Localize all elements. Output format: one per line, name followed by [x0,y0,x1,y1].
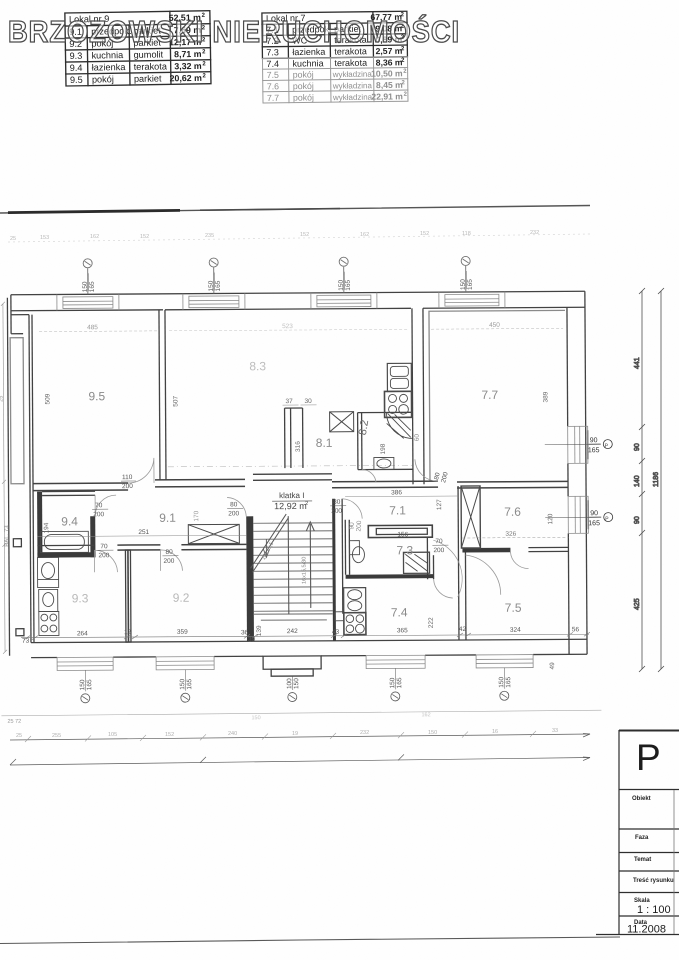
svg-text:90: 90 [590,510,598,517]
wall 7.4 | 7.5 [457,552,460,640]
svg-text:8.2: 8.2 [357,419,371,436]
svg-text:9.3: 9.3 [72,591,89,605]
bottom wall window 4 [366,655,425,668]
kitchen unit 8 sink [387,363,411,391]
svg-text:264: 264 [77,630,88,637]
svg-text:16: 16 [492,729,498,735]
svg-text:wykładzina: wykładzina [332,81,373,90]
wall left of 7.6 shaft [457,486,459,552]
svg-text:pokój: pokój [92,74,114,84]
bottom wall window 1 [57,657,113,670]
top wall window 4 [439,292,505,308]
svg-text:127: 127 [436,499,443,510]
left exterior wall [7,298,9,656]
svg-text:25: 25 [10,236,16,242]
svg-text:terakota: terakota [334,58,367,68]
svg-text:7.5: 7.5 [267,70,279,80]
svg-text:10,50 m: 10,50 m [371,68,403,78]
top wall window 1 [57,294,119,310]
svg-text:7.6: 7.6 [504,505,521,519]
faint bottom sub-dim line [1,710,601,725]
room 9.4 walls [37,492,42,558]
wall klatka | 7.3 [332,499,336,641]
corridor bottom wall segments [37,544,94,546]
dash ceiling line 8.3 area [168,465,412,466]
bottom window labels [79,668,512,703]
sink 7.4 [344,588,366,613]
svg-text:150: 150 [179,678,186,689]
corner shower 8.2 [387,412,413,438]
svg-text:150: 150 [389,677,396,688]
left pilaster strip [10,338,24,484]
svg-text:162: 162 [421,712,430,718]
svg-text:150: 150 [428,730,437,736]
svg-text:152: 152 [140,234,149,240]
corridor top wall segments [33,477,568,490]
door arcs [94,456,529,601]
FLOOR PLAN [7,256,589,678]
svg-text:240: 240 [228,731,237,737]
svg-text:49: 49 [549,662,556,670]
top wall window 2 [183,293,245,309]
shower 7.3 [403,552,429,573]
top window labels 150/165 [82,271,474,292]
svg-text:8.3: 8.3 [249,359,266,373]
stairs klatka [250,514,333,614]
svg-text:386: 386 [391,489,402,496]
svg-text:152: 152 [165,732,174,738]
svg-text:9.4: 9.4 [61,514,78,528]
svg-text:100: 100 [286,678,293,689]
svg-text:523: 523 [282,323,293,330]
svg-text:200: 200 [163,558,174,565]
svg-text:152: 152 [300,232,309,238]
svg-text:P: P [636,737,661,778]
svg-text:120: 120 [547,513,554,524]
svg-text:7.5: 7.5 [505,601,522,615]
svg-text:200: 200 [331,508,342,515]
long dim line 2 [10,758,590,766]
horizontal dim line across rooms y635 [21,632,590,639]
door 9.5 to corridor [128,458,154,483]
svg-text:9.2: 9.2 [173,591,190,605]
svg-text:22,91 m: 22,91 m [371,91,403,101]
svg-text:389: 389 [542,391,549,402]
svg-text:8,45 m: 8,45 m [376,80,403,90]
svg-text:232: 232 [360,730,369,736]
dim line segments 441/90/140/90/425 [641,291,643,669]
long dim line 1 [10,734,590,740]
door 7.5 [465,555,500,595]
dim 326 in 7.6 [462,530,568,538]
svg-text:30: 30 [304,398,312,405]
svg-text:235: 235 [205,233,214,239]
stove 7.4 [344,613,366,635]
svg-text:9.3: 9.3 [69,51,82,61]
svg-text:316: 316 [295,441,302,452]
svg-text:60: 60 [414,434,421,442]
svg-text:9.4: 9.4 [70,63,83,73]
room 7.7 inner outline [429,310,566,481]
svg-text:12,92 m: 12,92 m [274,501,307,511]
room labels [60,358,522,622]
svg-text:165: 165 [588,520,600,527]
stove 9.3 [39,611,59,635]
svg-text:150: 150 [79,679,86,690]
svg-text:56: 56 [572,626,580,633]
svg-text:140: 140 [634,475,641,487]
svg-text:200: 200 [122,483,133,490]
svg-text:42: 42 [459,626,467,633]
dim 485 in 9.5 [39,321,563,331]
svg-text:7.7: 7.7 [481,388,498,402]
svg-text:25: 25 [0,396,5,402]
svg-text:Obiekt: Obiekt [632,796,651,802]
shaft X corridor wardrobe [188,524,239,543]
svg-text:73: 73 [22,638,30,645]
svg-text:162: 162 [90,234,99,240]
8-area kitchenette stub wall [284,408,286,468]
svg-text:200: 200 [98,552,109,559]
svg-text:pokój: pokój [293,92,314,102]
svg-text:80: 80 [333,499,341,506]
svg-text:Faza: Faza [635,835,649,841]
table lokal nr 9 [65,11,211,86]
svg-text:80: 80 [165,549,173,556]
washbasin 9.3 [37,557,58,587]
8.2 bathroom walls [357,413,359,470]
svg-text:365: 365 [397,627,408,634]
door 9.2 [160,550,182,571]
wall 8-area | 7.7 [412,308,413,484]
svg-text:gumolit: gumolit [133,49,163,59]
right wall window 2 (90/165) [568,496,588,533]
svg-text:BAL. 73: BAL. 73 [4,525,10,547]
svg-text:165: 165 [588,447,600,454]
shaft X by 7.6 [461,486,480,548]
svg-text:165: 165 [396,677,403,688]
svg-text:139: 139 [256,625,263,636]
door 8.2 [362,470,376,483]
svg-text:441: 441 [634,357,641,369]
svg-text:150: 150 [82,281,89,292]
table lokal nr 7 [262,11,408,103]
svg-text:parkiet: parkiet [134,73,162,83]
svg-text:165: 165 [345,279,352,290]
dim 386 in 7.1 [345,489,458,497]
7.3 walls [344,520,346,575]
svg-text:118: 118 [462,231,471,237]
svg-text:9.5: 9.5 [88,389,105,403]
bottom wall window 5 [476,655,533,668]
interior walls [32,307,569,642]
door 8.1 to corridor [415,459,438,481]
svg-text:kuchnia: kuchnia [292,58,323,68]
svg-text:150: 150 [338,279,345,290]
svg-text:8.1: 8.1 [316,436,333,450]
svg-text:43: 43 [332,629,340,636]
klatka I label [272,491,312,511]
svg-text:wykładzina: wykładzina [332,70,373,79]
kitchen unit 8 stove [384,391,411,417]
svg-text:9.1: 9.1 [159,511,176,525]
svg-text:150: 150 [251,715,260,721]
right wall window 1 (90/165) [568,426,588,463]
shafts with X [188,411,481,550]
svg-text:165: 165 [186,678,193,689]
svg-text:8,36 m: 8,36 m [376,57,403,67]
title block [596,730,679,936]
svg-text:kuchnia: kuchnia [91,50,124,61]
svg-text:222: 222 [428,617,435,628]
svg-text:165: 165 [467,279,474,290]
svg-text:7.4: 7.4 [266,59,279,69]
svg-text:242: 242 [287,628,298,635]
wall 9.3 | 9.2 [125,550,131,642]
svg-text:1 : 100: 1 : 100 [637,904,671,916]
svg-text:509: 509 [44,393,51,404]
top exterior wall [11,291,585,295]
svg-text:20,62 m: 20,62 m [170,73,203,84]
svg-text:165: 165 [215,280,222,291]
rotated dims [42,390,556,672]
svg-text:2: 2 [305,501,308,507]
svg-text:Treść rysunku: Treść rysunku [633,878,674,884]
svg-text:165: 165 [89,281,96,292]
svg-text:105: 105 [108,732,117,738]
right vertical dimension lines [634,288,664,672]
svg-text:9.5: 9.5 [70,75,83,85]
svg-text:7.1: 7.1 [389,503,406,517]
svg-text:170: 170 [193,510,200,521]
svg-text:16x15,5/30: 16x15,5/30 [301,557,307,584]
svg-text:200: 200 [355,520,363,532]
svg-text:153: 153 [40,235,49,241]
svg-text:198: 198 [380,443,387,454]
door 7.3 [433,540,462,597]
svg-text:25 72: 25 72 [7,719,21,725]
svg-text:150: 150 [498,677,505,688]
svg-text:150: 150 [208,280,215,291]
svg-text:255: 255 [52,733,61,739]
door size labels [92,433,451,565]
37 30 labels in 8-area [282,398,316,405]
svg-text:450: 450 [489,322,500,329]
svg-text:klatka I: klatka I [279,491,304,500]
door 7.4 [434,579,453,598]
dim 251 corridor [37,528,246,536]
bottom exterior wall [31,639,587,642]
scan page top edge line [0,206,590,214]
svg-text:200: 200 [93,511,104,518]
svg-text:łazienka: łazienka [92,62,127,73]
svg-text:39: 39 [248,636,256,643]
svg-text:BRZOZOWSKI NIERUCHOMOŚCI: BRZOZOWSKI NIERUCHOMOŚCI [8,13,460,49]
wall 9.2 | klatka [246,516,254,641]
svg-text:11.2008: 11.2008 [627,924,666,936]
plan labels and internal dimensions [0,298,614,725]
bottom entrance door [263,656,321,676]
right wall window labels [545,437,613,527]
svg-text:156: 156 [397,531,408,538]
svg-text:485: 485 [87,324,98,331]
svg-text:12: 12 [124,629,132,636]
bottom wall window 2 [156,657,214,670]
svg-text:8,71 m: 8,71 m [174,49,202,59]
svg-text:37: 37 [285,398,293,405]
right exterior wall [585,291,587,654]
corridor wall over klatka [253,473,332,475]
svg-text:7.4: 7.4 [391,605,408,619]
svg-text:25: 25 [16,733,22,739]
svg-text:7.6: 7.6 [267,81,279,91]
left small vent box B [16,629,24,636]
top wall window 3 [311,293,377,309]
wall 9.5 | 8.3 [159,310,160,480]
scan bottom edge line [0,937,620,944]
bathtub 9.4 [40,531,88,552]
svg-text:80: 80 [230,501,238,508]
svg-text:200: 200 [433,547,444,554]
left small vent box A [13,539,21,547]
svg-text:194: 194 [43,522,50,533]
svg-text:90: 90 [634,516,641,524]
svg-text:359: 359 [177,629,188,636]
svg-text:150: 150 [460,279,467,290]
door klatka right to 7.1 [342,499,362,519]
svg-text:Temat: Temat [634,857,651,863]
svg-text:200: 200 [228,510,239,517]
svg-text:7.7: 7.7 [267,93,279,103]
svg-text:425: 425 [634,598,641,610]
svg-text:90: 90 [634,443,641,451]
window markers above top wall [83,256,470,294]
svg-text:70: 70 [100,543,108,550]
faint dimension number row under top edge [8,230,590,242]
svg-text:326: 326 [505,531,516,538]
svg-text:36: 36 [241,629,249,636]
door 9.3 [94,550,117,572]
svg-text:1186: 1186 [653,472,660,487]
svg-text:terakota: terakota [134,61,168,72]
svg-text:150: 150 [293,678,300,689]
svg-text:507: 507 [172,396,179,407]
door klatka left [227,497,246,516]
fixtures [36,363,430,636]
svg-text:90: 90 [590,437,598,444]
svg-text:pokój: pokój [293,81,314,91]
stair up arrow [306,522,315,608]
svg-text:165: 165 [505,676,512,687]
wc 9.3 [39,589,58,611]
svg-text:wykładzina: wykładzina [332,93,373,102]
dim line 1186 [660,291,662,669]
7.1 cabinet [368,525,432,537]
svg-text:251: 251 [138,529,149,536]
watermark BRZOZOWSKI NIERUCHOMOSCI [8,13,460,49]
stair break line [250,514,288,572]
far-left vertical dim line [1,302,7,654]
arrow left flight [263,539,269,557]
svg-text:70: 70 [95,502,103,509]
door 7.6 [510,552,528,569]
svg-text:165: 165 [86,679,93,690]
7.6 bottom wall [462,548,510,553]
svg-text:7.3: 7.3 [396,543,413,557]
svg-text:pokój: pokój [293,69,314,79]
svg-text:3,32 m: 3,32 m [174,61,202,71]
small box left of sink 7.4 [335,612,344,621]
shaft X in 8-area [330,412,354,432]
svg-text:324: 324 [510,627,521,634]
door 9.4 to corridor [95,495,116,516]
vestibule under stairs [254,613,333,615]
bottom dimension lines [10,728,590,765]
svg-text:110: 110 [122,474,133,481]
svg-text:70: 70 [435,538,443,545]
wc 7.3 [349,541,364,563]
washbasin 8.2 [374,457,394,469]
svg-text:19: 19 [292,731,298,737]
svg-text:33: 33 [552,728,558,734]
